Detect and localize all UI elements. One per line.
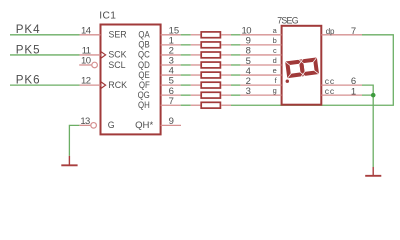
pin 4 stub segment e xyxy=(240,74,281,76)
svg-text:9: 9 xyxy=(169,116,174,127)
svg-text:cc: cc xyxy=(325,86,335,96)
pin 5 stub QF xyxy=(161,84,181,86)
pin 14 SER stub xyxy=(80,34,101,36)
clock wedge RCK xyxy=(101,82,106,89)
pin 9 stub QH* xyxy=(161,124,181,126)
pin 3 stub QD xyxy=(161,64,181,66)
pin 3 stub segment g xyxy=(240,94,281,96)
svg-text:QH: QH xyxy=(138,99,150,110)
svg-text:G: G xyxy=(108,120,115,130)
svg-text:a: a xyxy=(273,26,278,35)
wire QG to R7 xyxy=(181,94,191,96)
pin 6 stub cc xyxy=(321,84,362,86)
resistor R5 xyxy=(191,72,231,78)
pin 7 stub QH xyxy=(161,104,181,106)
pin 11 SCK stub xyxy=(80,54,101,56)
pin 9 stub segment b xyxy=(240,44,281,46)
wire cc pin1 to ground xyxy=(362,95,373,167)
svg-text:cc: cc xyxy=(325,76,335,86)
svg-text:14: 14 xyxy=(81,25,91,36)
digit 8 glyph xyxy=(284,57,320,80)
svg-text:e: e xyxy=(273,66,277,75)
svg-text:QH*: QH* xyxy=(135,120,153,131)
wire cc pin6 to cc pin1 xyxy=(362,85,373,95)
wire QE to R5 xyxy=(181,74,191,76)
svg-text:SER: SER xyxy=(109,29,127,39)
svg-text:SCK: SCK xyxy=(108,49,127,59)
pin 7 stub dp xyxy=(321,34,362,36)
resistor R4 xyxy=(191,62,231,68)
pin 1 stub cc xyxy=(321,94,362,96)
svg-text:d: d xyxy=(273,56,277,65)
decimal point dot xyxy=(286,80,289,83)
svg-text:IC1: IC1 xyxy=(99,11,116,22)
svg-text:7: 7 xyxy=(351,26,356,37)
pin 10 SCL stub xyxy=(79,64,92,66)
svg-text:3: 3 xyxy=(246,86,251,97)
svg-text:1: 1 xyxy=(351,86,356,97)
wire QD to R4 xyxy=(181,64,191,66)
pin 13 G stub xyxy=(79,124,90,126)
pin 10 inversion bubble xyxy=(92,62,98,68)
svg-text:7SEG: 7SEG xyxy=(277,15,299,25)
svg-text:c: c xyxy=(273,46,277,55)
wire G pin to ground xyxy=(69,125,79,156)
wire R1 to segment a xyxy=(231,34,240,36)
resistor R6 xyxy=(191,82,231,88)
svg-text:10: 10 xyxy=(81,56,91,67)
wire QF to R6 xyxy=(181,84,191,86)
resistor R1 xyxy=(191,32,231,38)
IC1 body outline xyxy=(101,25,161,135)
pin 8 stub segment c xyxy=(240,54,281,56)
svg-text:g: g xyxy=(273,86,277,95)
svg-text:dp: dp xyxy=(326,27,335,36)
ground GND1 xyxy=(61,156,77,165)
pin 2 stub segment f xyxy=(240,84,281,86)
wire net PK5 xyxy=(10,54,80,56)
svg-text:12: 12 xyxy=(81,76,91,87)
pin 4 stub QE xyxy=(161,74,181,76)
7SEG body outline xyxy=(282,26,322,105)
svg-text:b: b xyxy=(273,36,277,45)
wire net PK4 xyxy=(10,34,80,36)
resistor R2 xyxy=(191,42,231,48)
wire net PK6 xyxy=(10,84,80,86)
wire R6 to segment f xyxy=(231,84,240,86)
svg-text:13: 13 xyxy=(80,116,90,127)
pin 12 RCK stub xyxy=(80,84,101,86)
svg-text:7: 7 xyxy=(169,96,174,107)
pin 1 stub QB xyxy=(161,44,181,46)
resistor R3 xyxy=(191,52,231,58)
wire QH to R8 xyxy=(181,104,191,106)
svg-text:SCL: SCL xyxy=(108,59,125,69)
pin 5 stub segment d xyxy=(240,64,281,66)
wire QA to R1 xyxy=(181,34,191,36)
pin 13 inversion bubble xyxy=(91,123,97,129)
wire QB to R2 xyxy=(181,44,191,46)
pin 6 stub QG xyxy=(161,94,181,96)
wire R7 to segment g xyxy=(231,94,240,96)
pin 10 stub segment a xyxy=(240,34,281,36)
resistor R7 xyxy=(191,92,231,98)
clock wedge SCK xyxy=(101,51,106,58)
pin 2 stub QC xyxy=(161,54,181,56)
ground GND2 xyxy=(365,167,381,176)
wire R5 to segment e xyxy=(231,74,240,76)
wire R2 to segment b xyxy=(231,44,240,46)
wire R4 to segment d xyxy=(231,64,240,66)
pin 15 stub QA xyxy=(161,34,181,36)
wire R8 to dp net xyxy=(231,35,393,105)
svg-text:f: f xyxy=(275,76,278,85)
junction dot cc net xyxy=(371,93,376,98)
wire QC to R3 xyxy=(181,54,191,56)
wire R3 to segment c xyxy=(231,54,240,56)
svg-text:RCK: RCK xyxy=(108,80,127,90)
resistor R8 xyxy=(191,102,231,108)
